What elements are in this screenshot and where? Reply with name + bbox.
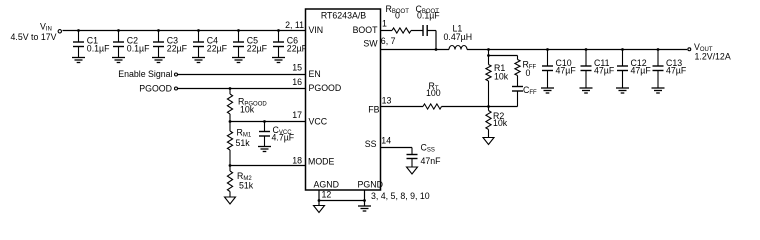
svg-text:51k: 51k [236, 138, 251, 148]
svg-text:1.2V/12A: 1.2V/12A [695, 52, 731, 62]
svg-text:FB: FB [368, 105, 379, 115]
svg-text:51k: 51k [239, 181, 254, 191]
svg-text:2, 11: 2, 11 [285, 20, 304, 30]
svg-text:22µF: 22µF [247, 44, 268, 54]
svg-text:1: 1 [382, 19, 387, 29]
svg-text:4.5V to 17V: 4.5V to 17V [11, 32, 57, 42]
svg-text:PGND: PGND [358, 180, 383, 190]
svg-text:22µF: 22µF [207, 44, 228, 54]
svg-text:0: 0 [526, 68, 531, 78]
svg-text:0.47µH: 0.47µH [444, 32, 473, 42]
svg-text:PGOOD: PGOOD [139, 84, 172, 94]
svg-text:MODE: MODE [308, 157, 335, 167]
svg-text:47µF: 47µF [556, 66, 577, 76]
svg-text:16: 16 [292, 77, 302, 87]
svg-text:10k: 10k [493, 118, 508, 128]
svg-text:BOOT: BOOT [353, 25, 379, 35]
svg-text:VIN: VIN [309, 25, 324, 35]
svg-text:0.1µF: 0.1µF [87, 44, 110, 54]
svg-text:17: 17 [292, 110, 302, 120]
svg-text:4.7µF: 4.7µF [272, 133, 295, 143]
svg-text:SS: SS [365, 139, 377, 149]
svg-text:VCC: VCC [309, 117, 328, 127]
svg-text:0.1µF: 0.1µF [127, 44, 150, 54]
svg-text:47nF: 47nF [421, 156, 442, 166]
svg-text:22µF: 22µF [167, 44, 188, 54]
svg-text:100: 100 [426, 88, 441, 98]
svg-text:47µF: 47µF [594, 66, 615, 76]
svg-text:PGOOD: PGOOD [309, 83, 342, 93]
svg-text:AGND: AGND [314, 180, 339, 190]
svg-text:RT6243A/B: RT6243A/B [321, 10, 366, 20]
svg-text:10k: 10k [494, 72, 509, 82]
svg-text:22µF: 22µF [287, 44, 308, 54]
svg-text:EN: EN [309, 69, 321, 79]
svg-text:12: 12 [322, 190, 332, 200]
svg-text:47µF: 47µF [666, 66, 687, 76]
svg-text:15: 15 [292, 63, 302, 73]
svg-text:14: 14 [381, 136, 391, 146]
svg-text:47µF: 47µF [631, 66, 652, 76]
svg-text:18: 18 [292, 156, 302, 166]
svg-text:6, 7: 6, 7 [381, 36, 396, 46]
svg-text:Enable Signal: Enable Signal [118, 69, 172, 79]
svg-text:0: 0 [395, 11, 400, 21]
svg-text:SW: SW [363, 39, 378, 49]
svg-text:13: 13 [382, 96, 392, 106]
svg-text:0.1µF: 0.1µF [417, 11, 440, 21]
svg-text:3, 4, 5, 8, 9, 10: 3, 4, 5, 8, 9, 10 [371, 191, 430, 201]
svg-text:10k: 10k [240, 105, 255, 115]
